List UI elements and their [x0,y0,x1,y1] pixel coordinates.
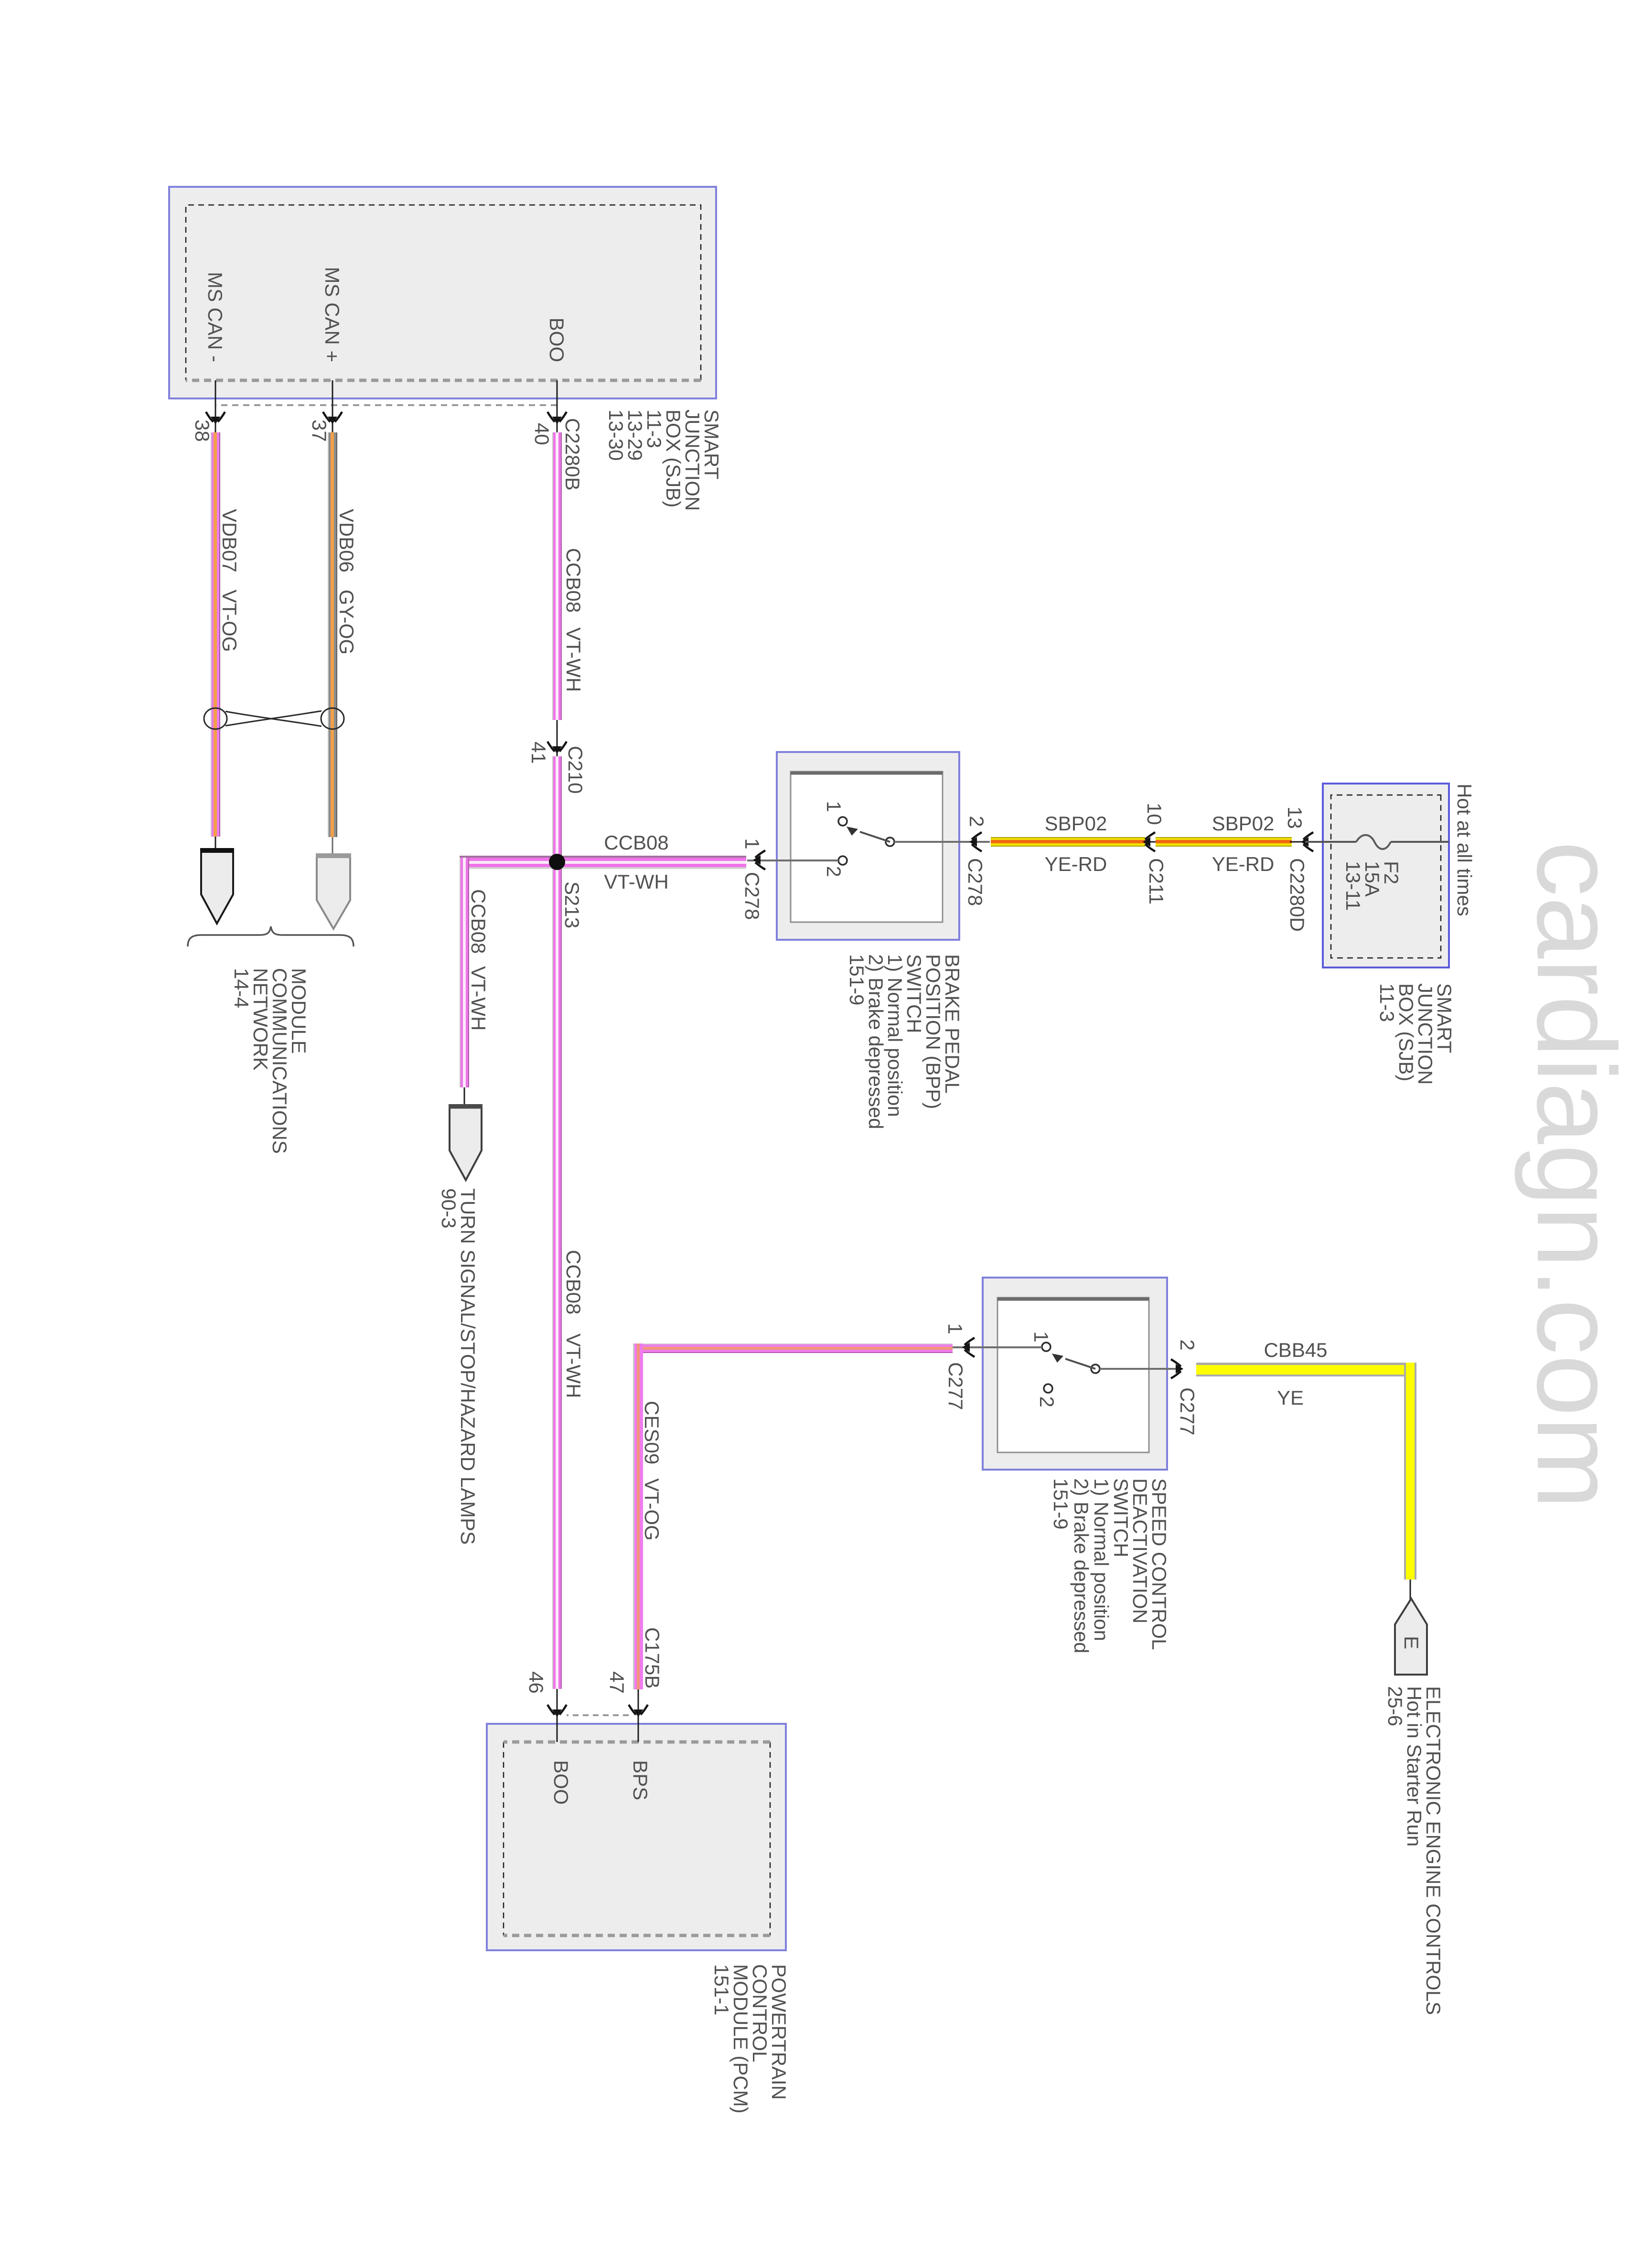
svg-text:14-4: 14-4 [230,968,253,1008]
svg-text:37: 37 [308,419,331,442]
BPP switch contact circle 2 [838,856,847,865]
svg-text:E: E [1400,1636,1423,1649]
svg-text:SWITCH: SWITCH [903,954,925,1033]
off-page connector MS CAN + (pentagon) [332,837,333,855]
svg-text:13-29: 13-29 [624,409,646,461]
svg-text:11-3: 11-3 [1376,983,1398,1022]
SJB pin 13 lead [1290,841,1323,843]
svg-text:COMMUNICATIONS: COMMUNICATIONS [268,968,291,1154]
svg-text:MODULE (PCM): MODULE (PCM) [729,1964,752,2114]
smart junction box SJB (left component box) [169,187,716,398]
inline connector C210 [557,720,558,756]
svg-text:BOX (SJB): BOX (SJB) [1395,983,1417,1081]
speed switch contact circle 1 [1042,1343,1051,1351]
wire CES09 VT-OG vertical run (speed switch pin 1 down) [633,1344,953,1353]
wire stub pin 38 [215,380,216,432]
svg-text:C278: C278 [964,858,987,906]
svg-text:151-9: 151-9 [1050,1478,1072,1529]
svg-text:SMART: SMART [1433,983,1456,1053]
svg-text:Hot in Starter Run: Hot in Starter Run [1403,1686,1426,1847]
wire CBB45 YE horizontal run (to E connector) [1404,1363,1416,1580]
svg-text:13-11: 13-11 [1342,861,1364,911]
svg-text:2) Brake depressed: 2) Brake depressed [1070,1478,1093,1654]
svg-text:151-1: 151-1 [710,1964,733,2015]
svg-text:CCB08: CCB08 [562,1250,585,1314]
connector C175B dashed boundary line [567,1714,629,1716]
SJB pin 38 arrow [206,412,225,424]
wire VDB06 GY-OG (MS CAN +) [328,432,337,837]
connector C2280B dashed boundary line [215,404,557,406]
wire CCB08 VT-WH main run segment B (C210 to PCM pin 46) [552,756,562,1689]
svg-text:VT-WH: VT-WH [604,871,668,893]
speed switch blade [1065,1359,1095,1369]
svg-text:CCB08: CCB08 [467,889,490,954]
BPP pin 2 lead [894,841,990,843]
svg-text:10: 10 [1143,803,1166,825]
svg-text:POWERTRAIN: POWERTRAIN [768,1964,790,2100]
svg-text:CONTROL: CONTROL [749,1964,771,2062]
speed switch contact circle 2 [1044,1384,1052,1393]
BPP switch pivot circle [886,838,894,846]
off-page connector E (pentagon) [1410,1580,1411,1601]
wire stub pin 40 [557,380,558,432]
speed switch pivot circle [1091,1365,1100,1373]
svg-text:CES09: CES09 [641,1401,663,1464]
svg-text:MODULE: MODULE [288,968,310,1054]
svg-text:S213: S213 [561,881,583,928]
SJB pin 40 arrow [547,412,567,424]
svg-text:2: 2 [823,866,845,877]
svg-text:JUNCTION: JUNCTION [1414,983,1437,1085]
svg-text:CCB08: CCB08 [604,831,668,854]
PCM pin 47 lead [638,1689,639,1742]
wire stub pin 37 [332,380,333,432]
svg-text:1) Normal position: 1) Normal position [1090,1478,1113,1641]
splice S213 [549,854,565,870]
svg-text:2) Brake depressed: 2) Brake depressed [865,954,887,1129]
svg-text:DEACTIVATION: DEACTIVATION [1129,1478,1151,1623]
BPP switch blade [860,832,890,842]
svg-text:C278: C278 [741,872,763,920]
svg-text:BRAKE PEDAL: BRAKE PEDAL [941,954,964,1094]
svg-text:C175B: C175B [641,1627,664,1688]
svg-text:BOO: BOO [550,1760,572,1805]
svg-text:C211: C211 [1145,858,1168,904]
svg-text:TURN SIGNAL/STOP/HAZARD LAMPS: TURN SIGNAL/STOP/HAZARD LAMPS [457,1188,479,1545]
svg-text:VT-OG: VT-OG [218,590,241,652]
smart junction box SJB (fuse box, top) [1323,784,1449,967]
svg-text:2: 2 [965,816,988,827]
svg-text:Hot at all times: Hot at all times [1453,784,1476,916]
svg-text:VT-OG: VT-OG [641,1478,663,1541]
inline connector C211 [1144,841,1159,843]
svg-text:C277: C277 [1176,1387,1199,1435]
svg-text:VDB07: VDB07 [218,509,241,572]
svg-text:YE-RD: YE-RD [1212,853,1275,875]
svg-text:1: 1 [1030,1331,1052,1342]
svg-text:11-3: 11-3 [643,409,665,448]
brace for module communications network [188,926,354,946]
BPP pin 1 lead [747,860,838,861]
svg-text:C210: C210 [564,746,587,794]
svg-text:C2280D: C2280D [1286,858,1308,932]
SJB pin 37 arrow [323,412,342,424]
svg-text:15A: 15A [1361,861,1383,897]
svg-text:BOO: BOO [546,318,568,362]
fuse F2 15A [1356,835,1391,849]
svg-text:CCB08: CCB08 [562,548,585,613]
svg-text:YE: YE [1277,1387,1304,1409]
svg-text:MS CAN +: MS CAN + [321,267,343,362]
svg-text:40: 40 [531,423,553,445]
svg-text:C2280B: C2280B [561,418,584,491]
BPP switch contact circle 1 [838,817,847,826]
svg-text:VT-WH: VT-WH [562,1333,585,1398]
svg-text:CBB45: CBB45 [1264,1339,1327,1361]
svg-text:cardiagn.com: cardiagn.com [1514,841,1630,1509]
svg-text:SPEED CONTROL: SPEED CONTROL [1148,1478,1170,1650]
wire CBB45 YE vertical run (speed switch pin 2 up) [1196,1363,1407,1376]
svg-text:1: 1 [944,1323,966,1334]
svg-text:13-30: 13-30 [605,409,627,461]
svg-text:VT-WH: VT-WH [467,966,490,1031]
svg-text:SWITCH: SWITCH [1110,1478,1132,1558]
wire SBP02 YE-RD segment 1 (BPP pin2 to C211) [991,837,1145,847]
svg-text:BOX (SJB): BOX (SJB) [662,409,685,507]
off-page connector MS CAN - (pentagon) [215,837,216,850]
branch wire CCB08 VT-WH to BPP switch and turn signal (vertical) [460,856,746,869]
svg-text:GY-OG: GY-OG [335,590,358,655]
svg-text:F2: F2 [1380,861,1403,884]
speed switch pin 1 lead [952,1346,1042,1348]
wire CCB08 VT-WH main run segment A (pin 40 to C210) [552,432,562,720]
svg-text:SMART: SMART [700,409,723,479]
speed switch pin 2 lead [1100,1368,1182,1370]
wire VDB07 VT-OG (MS CAN -) [211,432,220,837]
PCM pin 46 lead [557,1689,558,1742]
svg-text:C277: C277 [944,1362,967,1410]
svg-text:JUNCTION: JUNCTION [681,409,704,511]
svg-text:46: 46 [525,1671,547,1694]
fuse F2 lead [1391,841,1449,843]
svg-text:SBP02: SBP02 [1212,812,1275,835]
svg-text:1: 1 [823,801,845,812]
svg-text:NETWORK: NETWORK [249,968,272,1071]
off-page connector turn signal (pentagon) [464,1087,465,1107]
svg-text:38: 38 [191,419,214,442]
svg-text:BPS: BPS [629,1760,652,1800]
svg-text:2: 2 [1176,1339,1199,1350]
svg-text:2: 2 [1036,1396,1058,1407]
powertrain control module box [487,1724,786,1950]
svg-text:MS CAN -: MS CAN - [204,272,226,362]
svg-text:47: 47 [606,1671,628,1694]
svg-text:SBP02: SBP02 [1045,812,1107,835]
svg-text:ELECTRONIC ENGINE CONTROLS: ELECTRONIC ENGINE CONTROLS [1422,1686,1445,2015]
svg-text:YE-RD: YE-RD [1045,853,1107,875]
svg-text:90-3: 90-3 [438,1188,460,1228]
svg-text:13: 13 [1284,806,1306,829]
speed control deactivation switch box [983,1278,1167,1470]
svg-text:VT-WH: VT-WH [562,627,585,692]
svg-text:1) Normal position: 1) Normal position [884,954,906,1117]
wire CES09 VT-OG horizontal run (to PCM pin 47) [633,1344,643,1689]
branch wire horizontal run to turn signal connector [460,858,469,1087]
svg-text:41: 41 [527,742,550,764]
svg-text:POSITION (BPP): POSITION (BPP) [922,954,944,1109]
svg-text:151-9: 151-9 [846,954,868,1005]
brake pedal position switch box [777,752,959,940]
svg-text:25-6: 25-6 [1384,1686,1406,1726]
svg-text:VDB06: VDB06 [335,509,358,572]
svg-text:1: 1 [741,838,763,849]
twisted pair symbol [204,708,344,729]
wire SBP02 YE-RD segment 2 (C211 to SJB pin 13) [1156,837,1292,847]
